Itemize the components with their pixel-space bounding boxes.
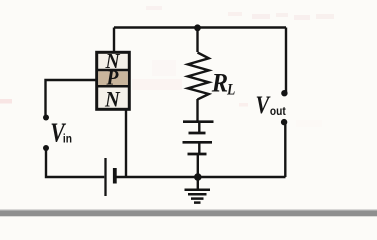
battery B1 short plate — [113, 168, 117, 184]
wire: Vout- down to bottom bus — [284, 123, 286, 177]
wire: battery B1 to ground junction — [117, 176, 198, 178]
wire: base lead (P) to Vin+ — [46, 80, 97, 115]
node: Vout lower terminal — [281, 119, 287, 125]
battery B1 long plate — [104, 158, 106, 196]
node: ground junction — [194, 173, 202, 181]
node: Vout upper terminal — [281, 90, 287, 96]
wire: emitter lead (bottom N) down — [125, 110, 127, 178]
svg-text:in: in — [63, 133, 72, 146]
svg-text:L: L — [226, 82, 235, 99]
node: top junction — [194, 24, 201, 31]
resistor RL — [188, 53, 209, 100]
wire: top bus — [114, 26, 286, 28]
node: Vin lower terminal — [43, 145, 49, 151]
svg-text:out: out — [270, 105, 286, 118]
scan smudge top right (decorative, part of paper) — [0, 6, 334, 127]
battery B2 (two cells) — [183, 122, 214, 154]
wire: right bus upper — [285, 28, 287, 93]
ground symbol — [185, 177, 211, 203]
transistor Q1 (NPN bar) — [97, 50, 130, 111]
label RL — [211, 70, 236, 99]
svg-text:V: V — [256, 91, 271, 118]
wire: battery B2 to ground node — [197, 155, 199, 177]
wire: resistor RL top lead — [196, 28, 198, 53]
label Vin — [50, 118, 72, 148]
wire: transistor top lead — [113, 28, 115, 53]
label Vout — [256, 91, 287, 118]
svg-text:R: R — [211, 70, 228, 98]
wire: Vin- down to battery B1 — [46, 149, 104, 177]
wire: bottom bus right — [198, 176, 286, 178]
node: Vin upper terminal — [43, 115, 49, 121]
svg-text:N: N — [104, 87, 120, 112]
wire: RL to battery B2 — [196, 99, 198, 121]
bottom grey bar — [0, 211, 377, 217]
